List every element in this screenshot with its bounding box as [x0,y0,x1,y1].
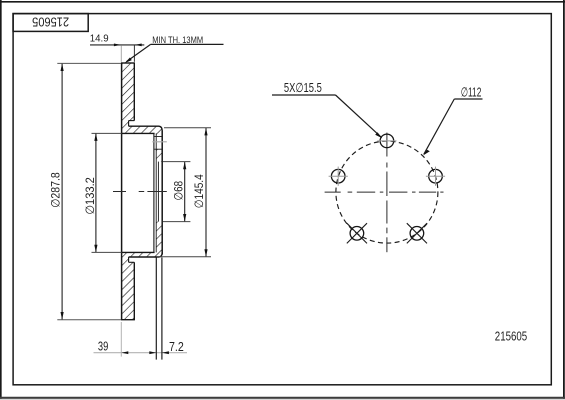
bottom notch horizontal [129,261,135,263]
label 5X15.5 arrow [375,132,382,138]
dim 287.8 ext top [57,62,121,64]
bar bottom edge [121,319,135,321]
bolt hole upper edge [155,136,163,138]
bolt hole UL ticks [329,175,348,177]
svg-text:14.9: 14.9 [90,33,109,44]
MIN TH underline [151,43,224,45]
dim 39 arrow left [121,351,128,354]
flange inner face line B [155,133,157,252]
dim 68 ext top [163,161,190,163]
dim 39 ext left [120,322,122,357]
dim 287.8 ext bottom [57,319,121,321]
MIN TH leader arrow [125,58,132,64]
svg-text:215605: 215605 [32,14,69,29]
bar right edge top [133,63,135,121]
notch top horizontal [129,120,135,122]
bore chamfer line [157,162,159,222]
bolt hole UR ticks [426,175,445,177]
hatch: lower wall [156,222,162,253]
hat inner bottom line [122,251,155,253]
bolt hole lower-left [350,227,364,241]
hatch: left sliver below hat inner (bottom) [122,252,129,262]
bar right edge bottom [133,262,135,320]
label 112 arrow [423,150,430,156]
dim 68 arrow bottom [183,214,186,222]
hatch: bottom flange strip [129,252,163,257]
hatch: top flange strip [129,126,163,133]
notch left vertical [128,121,130,127]
svg-text:39: 39 [98,338,108,353]
dim 14.9 arrow left [114,44,121,47]
section centre line [113,191,126,193]
dim 39 and 7.2 dim line [94,352,188,354]
title box [13,14,88,32]
outer border top [0,1,565,3]
bolt hole LL cross [347,223,367,243]
bolt hole top tick [377,140,396,142]
svg-text:∅68: ∅68 [172,181,186,201]
bolt hole lower edge [155,148,163,150]
hat inner top line [122,132,155,134]
bolt hole upper-right [429,169,443,183]
outer border left [0,0,2,400]
svg-text:7.2: 7.2 [169,339,184,354]
dim 133.2 arrow bottom [94,245,97,253]
dim 145.4 line [205,128,207,257]
dim 145.4 ext top [164,127,211,129]
dim 7.2 arrow [162,351,169,354]
svg-text:∅133.2: ∅133.2 [83,177,97,215]
dim 287.8 line [61,63,63,319]
bottom notch vertical [128,257,130,262]
label 112 leader [424,99,455,154]
hatch: left sliver above hat inner [122,121,129,134]
dim 39 arrow right [149,351,156,354]
svg-text:5X∅15.5: 5X∅15.5 [284,80,322,95]
dim 14.9 ext right [133,45,135,62]
dim 7.2 ext left [155,258,157,360]
dim 68 line [184,162,186,222]
svg-text:∅145.4: ∅145.4 [192,174,206,208]
bolt circle [336,141,438,243]
dim 287.8 arrow bottom [61,312,64,320]
dim 68 ext bottom [163,221,190,223]
dim 7.2 ext right [161,258,163,360]
dim 68 arrow top [183,162,186,170]
flange inner face line A [153,133,155,252]
hatch: bar bottom [122,262,135,319]
dim 145.4 ext bottom [157,256,211,258]
dim 145.4 arrow bottom [204,249,207,257]
dim 133.2 ext top [92,132,122,134]
dim 14.9 line [90,44,144,46]
svg-text:∅287.8: ∅287.8 [49,172,63,208]
dim 287.8 arrow top [61,63,64,71]
dim 14.9 arrow right [135,44,142,47]
bolt hole centre tick [152,141,167,143]
label 5X15.5 underline [272,94,336,96]
dim 133.2 arrow top [94,133,97,141]
svg-text:∅112: ∅112 [461,84,482,99]
label 112 underline [454,98,482,100]
hatch: bar top [122,63,135,121]
disc left face [121,63,123,320]
dim 133.2 ext bottom [92,251,122,253]
bottom flange bottom edge [129,252,163,257]
dim 14.9 ext left [120,45,122,62]
bolt hole LR cross [407,223,427,243]
outer border bottom [0,397,565,399]
top flange top edge [129,126,163,131]
MIN TH leader [127,44,151,61]
dim 145.4 arrow top [204,128,207,136]
hatch: upper wall above bolt hole [156,133,162,136]
horizontal centre line [325,191,341,193]
bolt hole top [380,134,394,148]
hatch: upper wall below bolt hole [156,149,162,161]
dim 133.2 line [95,133,97,252]
mounting face right [161,131,163,255]
svg-text:215605: 215605 [495,329,527,344]
bar top edge [121,62,135,64]
vertical centre line [386,133,388,157]
outer border right [563,0,565,400]
bolt hole lower-right [410,227,424,241]
bolt hole upper-left [331,169,345,183]
label 5X15.5 leader [336,95,382,137]
